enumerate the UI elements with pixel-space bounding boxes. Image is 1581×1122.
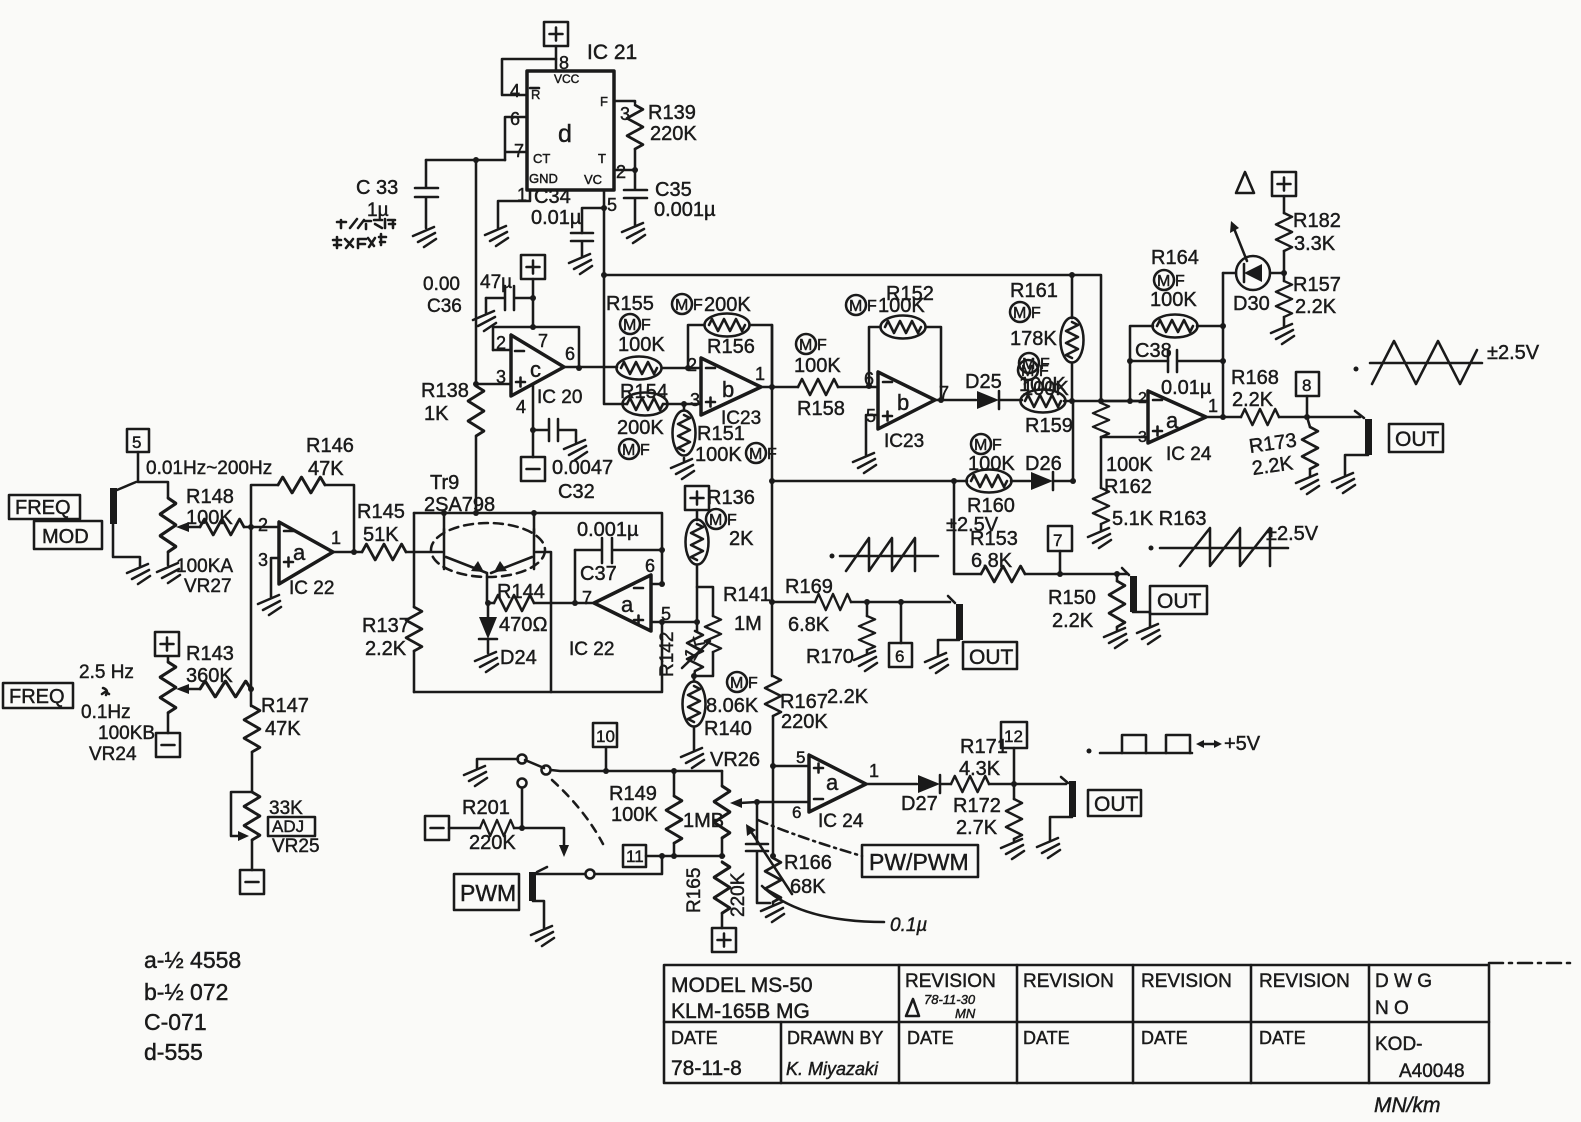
wire IC24a output [1206, 416, 1241, 419]
svg-text:c: c [530, 357, 541, 382]
wire V+ down to IC20 pin7 [532, 279, 535, 327]
ground R166 [761, 902, 784, 922]
ground jack net12 [1037, 838, 1060, 858]
svg-text:b-½ 072: b-½ 072 [144, 979, 228, 1005]
wire top loop rail [414, 513, 662, 584]
resistor R157 2.2K [1276, 281, 1292, 317]
V- box VR24 [156, 733, 180, 757]
op-amp U22 (a) [279, 522, 333, 584]
diode D30 LED [1223, 272, 1236, 275]
ground C35 [622, 223, 645, 243]
leader 0.1u label [762, 886, 884, 922]
resistor R201 220K [449, 827, 480, 830]
wire b2 output [935, 399, 976, 402]
capacitor 0.1u [746, 802, 770, 903]
svg-text:N O: N O [1375, 998, 1409, 1019]
wire pin5 stub [651, 621, 697, 624]
svg-text:100K: 100K [1150, 289, 1197, 311]
svg-text:PW/PWM: PW/PWM [869, 849, 969, 875]
svg-text:100K: 100K [968, 453, 1015, 475]
resistor R163 5.1K [1100, 437, 1103, 488]
svg-text:2.2K: 2.2K [365, 638, 407, 660]
svg-text:R147: R147 [261, 695, 309, 717]
svg-text:±2.5V: ±2.5V [946, 514, 999, 536]
svg-text:4: 4 [510, 81, 520, 101]
node C36/V+ junction [530, 295, 536, 301]
svg-text:2.2K: 2.2K [1232, 389, 1274, 411]
svg-text:68K: 68K [790, 876, 826, 898]
svg-text:R139: R139 [648, 102, 696, 124]
wire VR25 to V- [251, 840, 254, 870]
wire D26 up to R159 node [1053, 401, 1073, 481]
wiper arrow VR27 [182, 526, 200, 529]
diode D26 [1011, 480, 1030, 483]
svg-text:360K: 360K [186, 665, 233, 687]
resistor 200K oval to pin3 [623, 393, 668, 416]
svg-text:DATE: DATE [1141, 1028, 1188, 1048]
svg-text:6.8K: 6.8K [971, 550, 1013, 572]
svg-text:DRAWN BY: DRAWN BY [787, 1028, 883, 1048]
svg-text:6: 6 [895, 647, 904, 666]
wire IC20 pin4 V- down [532, 385, 535, 457]
title block row divider [664, 1021, 1489, 1024]
trimmer R142 1K [687, 631, 703, 671]
node R161 bottom [1069, 398, 1075, 404]
wire IC24b output [866, 783, 917, 786]
ground C34 [569, 254, 592, 274]
ground C33 [413, 227, 436, 247]
arrow R166 trimmer [750, 830, 792, 894]
svg-text:R165: R165 [684, 868, 705, 913]
svg-text:100K: 100K [611, 804, 658, 826]
svg-text:0.01µ: 0.01µ [1161, 377, 1212, 399]
op-amp U24 a second half [809, 755, 866, 812]
svg-text:2.5 Hz: 2.5 Hz [79, 662, 134, 683]
jack FREQ MOD [110, 488, 117, 524]
svg-text:PWM: PWM [460, 880, 516, 906]
capacitor C35 0.001u [624, 170, 647, 225]
svg-text:7: 7 [538, 331, 548, 351]
svg-text:2: 2 [1138, 390, 1147, 407]
svg-text:REVISION: REVISION [1141, 971, 1232, 992]
resistor R150 2.2K [1114, 571, 1120, 577]
wire pin2 stub [493, 349, 511, 352]
svg-text:10: 10 [596, 727, 615, 746]
svg-text:47K: 47K [265, 718, 301, 740]
wire pin3 to ground [271, 558, 279, 597]
wire R147 to VR25 [251, 752, 254, 792]
trimmer VR25 33K [244, 792, 260, 840]
svg-text:OUT: OUT [1395, 428, 1440, 451]
ground R173 [1296, 474, 1319, 494]
node timing rail junction [473, 157, 479, 163]
node corner rail [1098, 398, 1104, 404]
resistor R165 220K [714, 862, 730, 913]
svg-text:470Ω: 470Ω [499, 614, 548, 636]
wire Tr9 right base to bottom rail [536, 552, 551, 692]
svg-text:IC23: IC23 [721, 408, 761, 429]
resistor R172 2.7K [1013, 784, 1016, 799]
switch throw dashed [552, 780, 603, 844]
svg-text:220K: 220K [650, 123, 697, 145]
resistor R144 470ohm [488, 602, 594, 605]
svg-text:R167: R167 [780, 691, 828, 713]
node R140 top junction [691, 673, 697, 679]
capacitor C34 0.01u [571, 233, 593, 256]
net 6 box [898, 599, 904, 605]
capacitor C36 0.0047u [486, 286, 533, 310]
svg-text:IC 22: IC 22 [569, 639, 614, 660]
svg-text:+5V: +5V [1224, 733, 1261, 755]
svg-text:T: T [598, 151, 606, 166]
feedback loop R146 [251, 485, 354, 551]
resistor R146 47K [278, 477, 325, 493]
wiper arrow VR24 / resistor R143 360K [182, 688, 200, 691]
svg-text:1: 1 [869, 761, 879, 781]
V- box R201 [425, 816, 449, 840]
svg-text:a: a [621, 592, 634, 617]
wire R145 to Tr9 base [406, 551, 442, 554]
label OUT net6 [963, 642, 1017, 669]
svg-text:R201: R201 [462, 797, 510, 819]
node pin2/C35 junction [632, 167, 638, 173]
resistor R160 100K oval feedback [772, 480, 967, 483]
svg-text:2.2K: 2.2K [1052, 610, 1094, 632]
op-amp U23 b second half [878, 372, 935, 429]
resistor R158 100K [798, 379, 838, 395]
ground jack FREQ MOD [127, 564, 150, 584]
svg-text:0.1Hz: 0.1Hz [81, 702, 131, 723]
wire IC20 feedback loop pin2 [493, 327, 579, 368]
svg-text:R161: R161 [1010, 280, 1058, 302]
svg-text:1MB: 1MB [683, 810, 724, 832]
wire IC20 output [564, 366, 617, 369]
ground R140 [681, 748, 704, 768]
wire long vertical timing node down to R138 [475, 160, 478, 384]
svg-text:100K: 100K [1019, 374, 1066, 396]
switch arm [525, 760, 544, 768]
op-amp U23 b first half [701, 358, 761, 415]
node feedback/output junction [576, 365, 582, 371]
svg-text:Tr9: Tr9 [430, 472, 459, 494]
svg-text:100K: 100K [186, 507, 233, 529]
wire R201 to switch lower [514, 788, 564, 850]
V+ box VR24 [155, 632, 179, 656]
wire R141 tee [697, 587, 713, 616]
feedback C38/R164 left vertical [1130, 326, 1168, 401]
ground D24 [475, 652, 498, 672]
title block column lines [781, 965, 1369, 1083]
svg-text:CT: CT [533, 151, 550, 166]
svg-text:0.1µ: 0.1µ [890, 915, 927, 936]
svg-text:6: 6 [645, 556, 655, 576]
ground C36 [473, 311, 496, 331]
label FREQ MOD boxes [9, 495, 80, 519]
jack PWM sleeve to ground [533, 901, 544, 928]
svg-text:200K: 200K [617, 417, 664, 439]
svg-text:R172: R172 [953, 795, 1001, 817]
wire contact to net11 [595, 856, 662, 874]
V- supply box for IC20 [521, 457, 545, 481]
wire net5 to jack tip [138, 452, 168, 498]
svg-text:DATE: DATE [671, 1028, 718, 1048]
svg-text:MN/km: MN/km [1374, 1094, 1441, 1117]
label OUT net12 [1088, 790, 1141, 816]
svg-text:3.3K: 3.3K [1294, 233, 1336, 255]
resistor R170 [864, 599, 870, 605]
switch NC contact [518, 755, 527, 764]
svg-text:OUT: OUT [1157, 590, 1202, 613]
ground R172 [1001, 839, 1024, 859]
ground jack net8 [1332, 473, 1355, 493]
label OUT net8 [1389, 424, 1443, 452]
svg-text:0.001µ: 0.001µ [577, 519, 639, 541]
svg-text:VR27: VR27 [184, 576, 232, 597]
svg-text:R156: R156 [707, 336, 755, 358]
svg-text:6: 6 [565, 344, 575, 364]
svg-text:F: F [600, 94, 608, 109]
wire R139 to pin2 T [614, 149, 635, 170]
svg-text:2.2K: 2.2K [1295, 296, 1337, 318]
wire to R159 [999, 399, 1022, 402]
svg-text:1M: 1M [734, 613, 762, 635]
resistor R149 100K [671, 768, 677, 774]
svg-text:3: 3 [690, 390, 700, 410]
svg-text:D W G: D W G [1375, 971, 1432, 992]
svg-text:7: 7 [1053, 531, 1062, 550]
label OUT net7 [1150, 586, 1207, 614]
ground VR27 [157, 563, 180, 583]
net 5 box [127, 429, 149, 452]
svg-text:D26: D26 [1025, 453, 1062, 475]
svg-text:2: 2 [496, 333, 506, 353]
svg-text:2: 2 [258, 515, 268, 535]
node C32 junction [530, 427, 536, 433]
svg-text:2: 2 [616, 162, 626, 182]
svg-text:ADJ: ADJ [272, 817, 304, 836]
svg-text:MN: MN [955, 1006, 976, 1021]
potentiometer VR26 1MB [721, 771, 724, 786]
wire R148 to pin2 [244, 526, 279, 529]
net 10 box [593, 723, 617, 747]
svg-text:K. Miyazaki: K. Miyazaki [786, 1059, 879, 1079]
svg-text:R170: R170 [806, 646, 854, 668]
waveform sawtooth left [830, 554, 835, 559]
wire pin6 stub [651, 583, 662, 586]
svg-text:R138: R138 [421, 380, 469, 402]
resistor R154 oval 100K on IC20 output [617, 357, 662, 380]
op-amp U22a (a) pointing left [594, 575, 651, 631]
jack net7 [1122, 568, 1129, 575]
revision delta mark [1236, 172, 1254, 193]
resistor R145 51K [362, 544, 406, 560]
resistor R148 100K [200, 519, 244, 535]
IC U21 555 timer box [527, 71, 614, 190]
svg-text:VR26: VR26 [710, 749, 760, 771]
svg-text:R140: R140 [704, 718, 752, 740]
svg-text:b: b [722, 377, 734, 402]
svg-text:R162: R162 [1104, 476, 1152, 498]
wire pole to net10 rail [551, 770, 722, 771]
wire R138 lower link [475, 437, 478, 513]
resistor R182 3.3K [1283, 196, 1286, 213]
svg-text:C38: C38 [1135, 340, 1172, 362]
svg-text:FREQ: FREQ [9, 686, 65, 708]
svg-text:VC: VC [584, 172, 602, 187]
wire Tr9 right collector riser [533, 513, 536, 533]
node R138 on top rail [473, 510, 479, 516]
svg-text:VR24: VR24 [89, 744, 137, 765]
svg-text:R148: R148 [186, 486, 234, 508]
ground R157 [1271, 324, 1294, 344]
svg-text:0.00: 0.00 [423, 274, 460, 295]
waveform triangle +-2.5V [1354, 367, 1359, 372]
resistor R153 6.8K [981, 566, 1025, 582]
wire V+ to pin8 VCC [555, 46, 558, 71]
net 11 box [623, 845, 646, 867]
svg-text:b: b [897, 390, 909, 415]
wire jack tip to contact [536, 873, 585, 876]
svg-text:47K: 47K [308, 458, 344, 480]
feedback loop resistor R152 100K oval [869, 327, 941, 400]
svg-text:R182: R182 [1293, 210, 1341, 232]
svg-text:8: 8 [1302, 376, 1311, 395]
svg-text:R159: R159 [1025, 415, 1073, 437]
resistor R173 2.2K [1307, 417, 1310, 427]
svg-text:R169: R169 [785, 576, 833, 598]
ground jack net6 [925, 653, 948, 673]
wire bottom rail [414, 622, 662, 692]
svg-text:OUT: OUT [969, 646, 1014, 669]
wire supply rail top right [604, 275, 1101, 401]
svg-text:5: 5 [607, 195, 617, 215]
jack net12 [1061, 777, 1068, 783]
potentiometer VR27 100KA [160, 498, 176, 552]
svg-text:C32: C32 [558, 481, 595, 503]
svg-text:IC 24: IC 24 [818, 811, 864, 832]
svg-text:A40048: A40048 [1399, 1061, 1465, 1082]
wire timing node: C33/C36 rail to pin7 [426, 159, 505, 162]
svg-text:C37: C37 [580, 563, 617, 585]
ground pin1 [485, 226, 508, 246]
wire pin5 net down through R166 [772, 766, 775, 856]
svg-text:IC23: IC23 [884, 431, 924, 452]
svg-text:a: a [1166, 408, 1179, 433]
resistor R138 1K [468, 386, 484, 436]
svg-text:2K: 2K [729, 528, 754, 550]
svg-text:5: 5 [132, 433, 141, 452]
svg-text:R155: R155 [606, 293, 654, 315]
wire pin6-pin7 tie [505, 117, 527, 160]
svg-text:3: 3 [258, 550, 268, 570]
ground R150 [1104, 628, 1127, 648]
svg-text:R158: R158 [797, 398, 845, 420]
node output wire junction [485, 600, 491, 606]
node pin5 riser [659, 619, 665, 625]
wire net6 from comparator [772, 601, 815, 604]
svg-text:C34: C34 [534, 186, 571, 208]
capacitor C33 1u [415, 160, 438, 228]
ground C32 [564, 440, 587, 460]
wire R167 to IC24b pin5 [773, 716, 809, 766]
waveform sawtooth right [1149, 546, 1154, 551]
resistor R136 2K oval [696, 510, 699, 631]
svg-text:D30: D30 [1233, 293, 1270, 315]
svg-text:R143: R143 [186, 643, 234, 665]
svg-text:11: 11 [626, 847, 644, 866]
svg-text:R137: R137 [362, 615, 410, 637]
svg-text:a-½ 4558: a-½ 4558 [144, 947, 241, 973]
svg-text:3: 3 [1138, 429, 1147, 446]
V- box VR25 [240, 870, 264, 894]
node V+ feedback top junction [530, 324, 536, 330]
svg-text:REVISION: REVISION [1023, 971, 1114, 992]
svg-text:MODEL MS-50: MODEL MS-50 [671, 974, 813, 997]
svg-text:R136: R136 [707, 487, 755, 509]
svg-text:IC 21: IC 21 [587, 41, 637, 64]
V+ box R182 [1272, 172, 1296, 196]
resistor R171 4.3K [940, 783, 951, 786]
svg-text:KLM-165B MG: KLM-165B MG [671, 1000, 810, 1023]
svg-text:R146: R146 [306, 435, 354, 457]
svg-text:6: 6 [510, 109, 520, 129]
svg-text:1: 1 [331, 528, 341, 548]
svg-text:6: 6 [792, 803, 801, 822]
wire pin1 to ground [498, 190, 530, 228]
svg-text:1: 1 [1208, 396, 1218, 416]
resistor R137 2.2K [413, 513, 416, 692]
resistor R169 6.8K [815, 594, 851, 610]
resistor R162 100K [1093, 403, 1109, 437]
wire pin3 F to R139 [614, 101, 635, 103]
svg-text:5.1K R163: 5.1K R163 [1112, 508, 1207, 530]
wire pin5 VC down [582, 190, 604, 233]
capacitor C32 0.0047 [533, 419, 576, 442]
node R151 junction [681, 401, 687, 407]
wire b1 output [761, 386, 798, 389]
svg-text:MOD: MOD [42, 526, 89, 548]
svg-text:R168: R168 [1231, 367, 1279, 389]
svg-text:100KB: 100KB [98, 723, 155, 744]
svg-text:R152: R152 [886, 283, 934, 305]
wire Tr9 left collector riser [443, 513, 446, 533]
svg-text:1K: 1K [424, 403, 449, 425]
resistor R140 8.06K oval [693, 676, 696, 750]
svg-text:51K: 51K [363, 524, 399, 546]
svg-text:VCC: VCC [554, 72, 580, 86]
svg-text:R141: R141 [723, 584, 771, 606]
svg-text:200K: 200K [704, 294, 751, 316]
svg-text:D24: D24 [500, 647, 537, 669]
svg-text:0.01Hz~200Hz: 0.01Hz~200Hz [146, 458, 272, 479]
svg-text:78-11-30: 78-11-30 [924, 992, 976, 1007]
jack net8 [1355, 411, 1364, 418]
wire net11 rail [646, 855, 724, 858]
svg-text:R166: R166 [784, 852, 832, 874]
svg-text:3: 3 [496, 367, 506, 387]
V+ supply box for IC21 [544, 22, 568, 46]
node R143 junction [248, 686, 254, 692]
svg-text:KOD-: KOD- [1375, 1034, 1423, 1055]
resistor R139 220K [627, 105, 643, 149]
svg-text:OUT: OUT [1094, 793, 1139, 816]
svg-text:R144: R144 [497, 581, 545, 603]
svg-text:100K: 100K [695, 444, 742, 466]
svg-text:100K: 100K [1106, 454, 1153, 476]
trimmer R166 68K [765, 858, 781, 902]
feedback loop resistor R156 200K oval [688, 325, 772, 387]
svg-text:d-555: d-555 [144, 1039, 203, 1065]
